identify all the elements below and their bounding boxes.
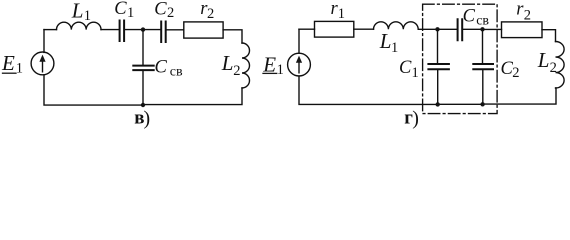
svg-text:C: C: [155, 57, 168, 77]
svg-text:1: 1: [338, 6, 345, 22]
wire Cсв to node B: [463, 28, 483, 30]
wire C2 to r2: [166, 29, 183, 31]
svg-text:E: E: [262, 52, 276, 76]
svg-text:1: 1: [412, 65, 419, 81]
svg-text:св: св: [170, 65, 183, 80]
resistor r1: [315, 21, 354, 37]
wire node A to Cсв: [438, 28, 458, 30]
capacitor C2: [161, 22, 166, 43]
svg-text:1: 1: [16, 61, 23, 77]
source E1 circle: [288, 53, 311, 76]
wire L2 to bottom corner: [483, 88, 556, 104]
node A: [435, 27, 439, 31]
resistor r2: [184, 22, 223, 38]
wire top-left corner to L1: [44, 29, 57, 31]
svg-text:2: 2: [550, 60, 557, 76]
svg-text:E: E: [1, 51, 15, 75]
inductor L1: [374, 22, 419, 29]
wire L1 to node A: [418, 28, 437, 30]
wire r1 to L1: [354, 28, 374, 30]
svg-text:1: 1: [84, 8, 91, 24]
wire node to C2: [143, 29, 161, 31]
wire node B to r2: [483, 28, 502, 30]
node B: [480, 27, 484, 31]
wire top-left corner to r1: [299, 28, 315, 30]
bottom node: [141, 103, 145, 107]
C2 branch wire upper: [482, 29, 484, 63]
svg-text:C: C: [154, 0, 167, 19]
svg-text:1: 1: [127, 5, 134, 21]
svg-text:C: C: [114, 0, 127, 19]
source E1 arrow: [42, 58, 44, 72]
inductor L2: [556, 42, 565, 89]
Cсв branch wire upper: [142, 30, 144, 65]
svg-text:2: 2: [512, 65, 519, 81]
node (top of Cсв branch): [141, 27, 145, 31]
inductor L1: [57, 22, 102, 29]
svg-text:L: L: [379, 29, 392, 53]
C1 branch wire lower: [437, 70, 439, 105]
source E1 arrow: [298, 59, 300, 73]
wire L1 to C1: [101, 29, 119, 31]
wire source to top-left corner: [43, 30, 45, 53]
svg-text:2: 2: [233, 63, 240, 79]
svg-text:1: 1: [391, 40, 398, 56]
svg-text:L: L: [71, 0, 84, 22]
wire r2 to corner: [542, 30, 556, 42]
svg-text:L: L: [221, 51, 234, 75]
svg-text:L: L: [537, 48, 550, 72]
resistor r2: [502, 22, 543, 38]
bottom wire to left corner: [299, 76, 438, 104]
capacitor Cсв: [133, 66, 153, 71]
C1 branch wire upper: [437, 29, 439, 63]
wire L2 to bottom-right corner: [143, 88, 242, 105]
svg-text:C: C: [463, 6, 476, 26]
wire r2 to corner: [223, 30, 242, 43]
svg-text:): ): [412, 107, 419, 129]
C2 branch wire lower: [482, 70, 484, 104]
svg-text:2: 2: [524, 7, 531, 23]
svg-text:C: C: [399, 58, 412, 78]
svg-text:1: 1: [277, 62, 284, 78]
wire C1 to node: [125, 29, 143, 31]
dash-dot boundary box: [423, 4, 498, 113]
source E1 circle: [31, 52, 54, 75]
bottom wire segment: [438, 103, 483, 105]
inductor L2: [242, 43, 250, 88]
capacitor Cсв: [458, 19, 463, 40]
capacitor C2 (shunt): [473, 64, 493, 69]
svg-text:2: 2: [167, 5, 174, 21]
bottom node under C1: [436, 102, 440, 106]
capacitor C1: [120, 21, 125, 42]
svg-text:св: св: [476, 14, 489, 29]
bottom node under C2: [480, 102, 484, 106]
svg-text:2: 2: [207, 6, 214, 22]
svg-text:): ): [144, 107, 151, 129]
bottom wire to left corner: [44, 75, 143, 105]
Cсв branch wire lower: [142, 71, 144, 105]
wire source to top-left corner: [298, 29, 300, 53]
capacitor C1 (shunt): [428, 64, 449, 69]
